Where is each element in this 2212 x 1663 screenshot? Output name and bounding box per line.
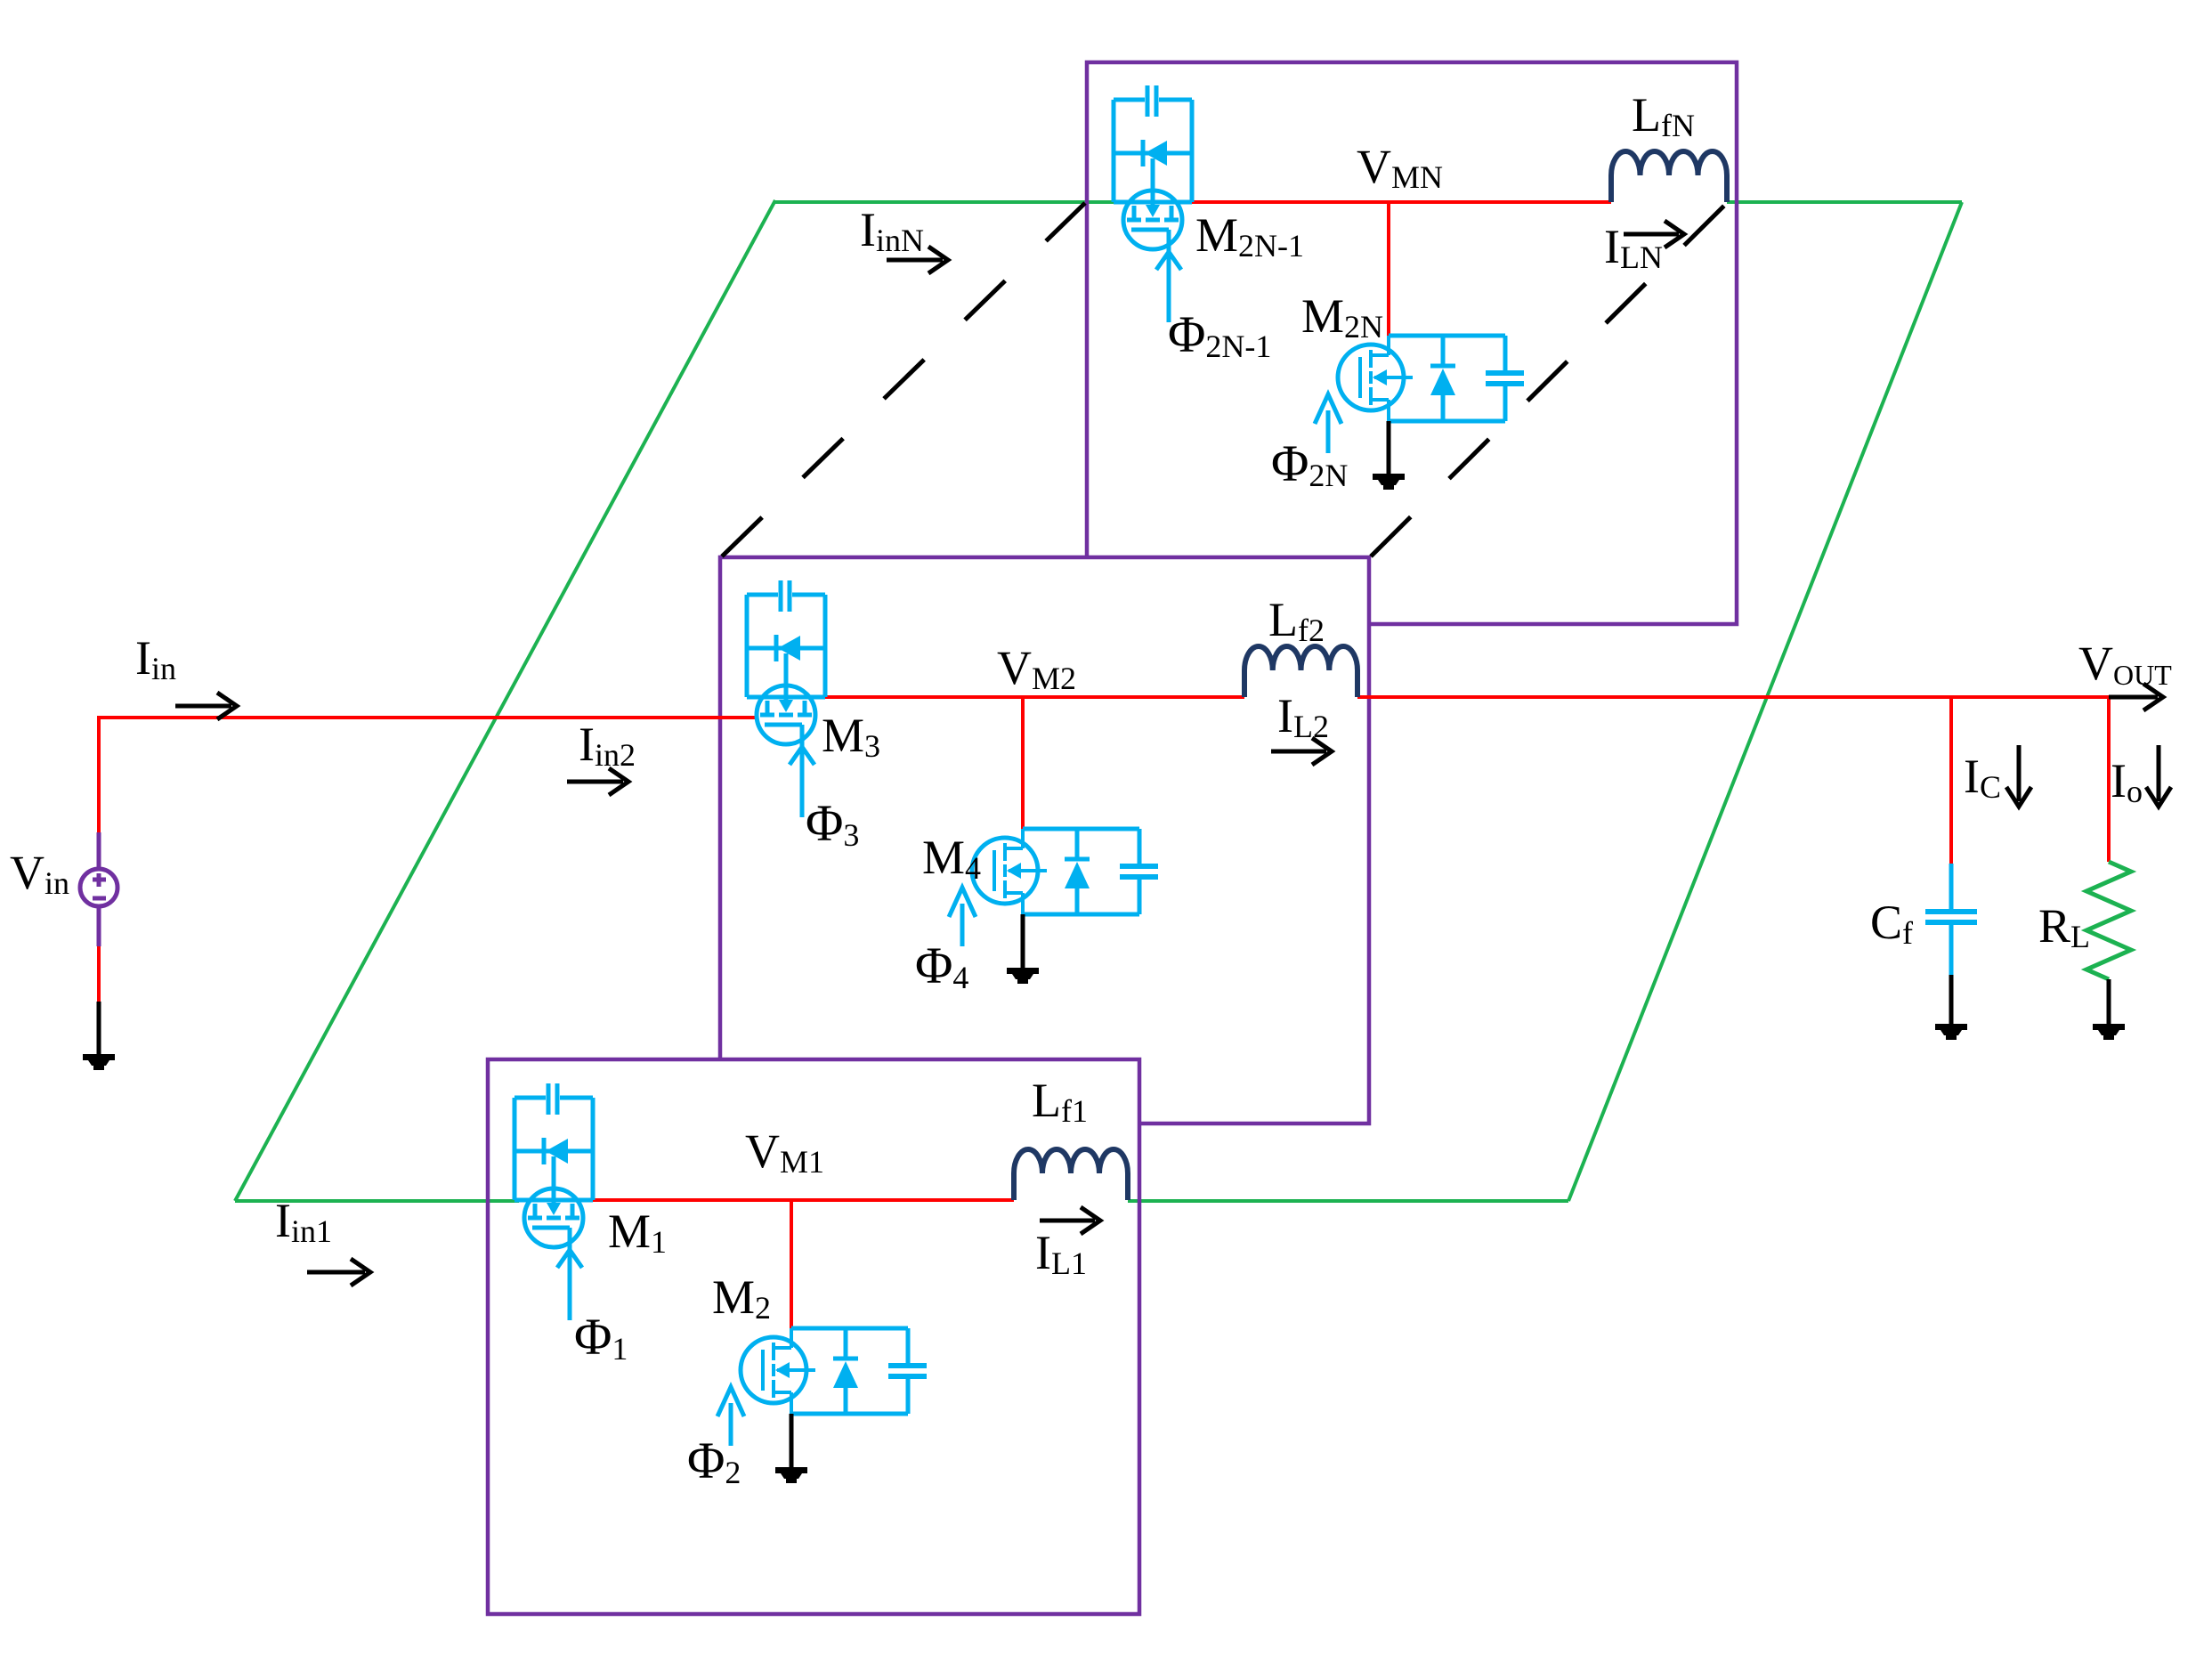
M4 transistor + snubber assembly [1023,827,1139,831]
resistor RL [2086,862,2131,979]
wire: M2 drain red vertical [790,1200,793,1328]
arrow: Io down [2157,745,2161,801]
cell N boundary box (top) [1087,62,1737,624]
wire: red input bus from Vin [97,716,101,832]
wire: Cf branch red lead [1949,697,1953,864]
wire: node VM2 (red) [825,695,1244,699]
transistor M4 (with body diode and capacitor) [949,829,1158,946]
ground (RL) [2107,979,2111,1024]
wire: green top bus segment (cell N inductor to output slant) [1727,200,1962,204]
arrow: IL2 [1271,750,1326,754]
transistor M1 (with body diode and capacitor) [515,1083,593,1320]
ground (M4 source) [1021,914,1025,968]
M1 snubber/gate assembly [513,1098,517,1200]
arrow: IinN [887,258,943,263]
wire: node VM1 (red) [591,1198,1014,1202]
M2N transistor + snubber assembly [1389,334,1505,338]
capacitor Cf [1949,864,1954,909]
wire: green bottom bus segment (cell 1 inductor to right slant) [1128,1199,1568,1203]
wire: green output bus right slant [1568,202,1962,1201]
ground (M2N source) [1387,421,1391,474]
wire: node VMN (red) [1191,200,1611,204]
transistor M2N-1 (with body diode and capacitor) [1114,85,1192,322]
M2 transistor + snubber assembly [791,1326,908,1331]
arrow: Iin1 [307,1270,365,1275]
cell 2 boundary box (middle) [720,557,1369,1124]
wire: green input bus left slant [235,200,775,1201]
ground (M2 source) [790,1414,794,1467]
dashed continuation line (cell 2 to cell N, upper) [722,203,1085,556]
wire: Vin lower red lead [97,946,101,1002]
voltage source Vin [97,832,101,870]
transistor M2N (with body diode and capacitor) [1315,336,1524,453]
inductor Lf1 [1014,1149,1128,1200]
arrow: IC down [2017,745,2022,801]
M2N-1 snubber/gate assembly [1112,100,1116,202]
wire: M2N drain red vertical [1387,202,1390,336]
wire: M4 drain red vertical [1021,697,1025,830]
wire: RL branch red lead [2107,697,2111,862]
ground (Vin) [97,1002,101,1054]
arrow: Iin [175,704,231,709]
arrow: VOUT output [2109,695,2158,700]
wire: green top bus segment (to cell N switch) [775,200,1114,204]
arrow: Iin2 [567,780,623,784]
arrow: ILN [1624,232,1679,237]
cell 1 boundary box (bottom) [488,1059,1139,1614]
inductor Lf2 [1244,646,1357,697]
transistor M2 (with body diode and capacitor) [717,1328,927,1446]
ground (Cf) [1949,975,1954,1024]
wire: green bottom bus segment (to cell 1 switch) [235,1199,519,1203]
dashed continuation line (cell 2 to cell N, lower) [1371,205,1725,556]
M3 snubber/gate assembly [745,595,749,697]
inductor LfN [1611,151,1727,202]
arrow: IL1 [1040,1219,1095,1223]
wire: output node red line to VOUT [1357,695,2111,699]
transistor M3 (with body diode and capacitor) [747,580,825,817]
